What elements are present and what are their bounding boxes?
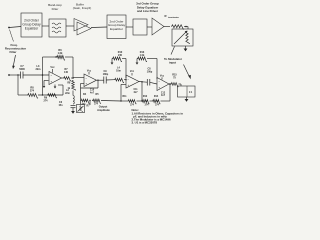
svg-text:140: 140 bbox=[64, 71, 69, 74]
load box bbox=[178, 86, 196, 97]
node A junction bbox=[42, 74, 44, 76]
wire rail1 right bbox=[65, 56, 73, 58]
svg-text:1.0k: 1.0k bbox=[140, 54, 145, 57]
node R4 R5 bbox=[89, 100, 90, 101]
wire C8 to A4 bbox=[150, 82, 157, 84]
resistor R terminator bbox=[171, 25, 184, 30]
block band-stop filter bbox=[49, 19, 66, 37]
svg-text:Equalizer: Equalizer bbox=[110, 27, 123, 31]
wire equalizer2 to equalizer3 bbox=[126, 26, 133, 28]
ground below C3 bbox=[72, 108, 74, 111]
resistor R10 vertical bbox=[72, 80, 76, 90]
svg-text:Vcc: Vcc bbox=[87, 69, 92, 72]
buffer amplifier (double triangle) bbox=[74, 19, 88, 32]
wire loop bottom bbox=[38, 94, 63, 96]
svg-text:10m: 10m bbox=[116, 69, 121, 72]
svg-text:1.0k: 1.0k bbox=[58, 52, 63, 55]
svg-text:and Line Driver: and Line Driver bbox=[137, 9, 159, 13]
rail3 Vss arrow bbox=[136, 59, 138, 63]
resistor R14 bbox=[152, 100, 160, 104]
resistor R15 bbox=[171, 83, 179, 87]
op-amp A4 bbox=[157, 78, 169, 91]
wire rail to A4 out bbox=[169, 84, 171, 101]
svg-text:Vcc: Vcc bbox=[160, 74, 165, 77]
resistor R6 bbox=[56, 56, 65, 61]
wire stub loop bbox=[58, 84, 63, 86]
ground below pot box bbox=[185, 46, 187, 49]
resistor R13 rail3 bbox=[137, 57, 147, 62]
svg-text:274: 274 bbox=[30, 90, 35, 93]
svg-text:terminator: terminator bbox=[168, 16, 179, 19]
ground at A1 plus input bbox=[44, 80, 49, 82]
svg-text:C11: C11 bbox=[133, 89, 138, 91]
resistor R5 bbox=[92, 99, 101, 103]
ground below load box bbox=[186, 97, 188, 99]
wire C8 node to rail bbox=[141, 82, 143, 101]
wire equalizer3 to line driver bbox=[147, 26, 152, 28]
resistor R11 rail2 bbox=[112, 57, 122, 62]
wire bandstop to buffer bbox=[66, 25, 74, 27]
feedback A3 to lower rail bbox=[121, 83, 126, 85]
annotation arrow to modulator bbox=[171, 47, 175, 55]
wire equalizer1 to bandstop bbox=[42, 25, 49, 27]
wire rail1 down bbox=[72, 57, 74, 78]
lower rail bbox=[121, 100, 128, 102]
svg-text:5600: 5600 bbox=[19, 68, 25, 71]
trimmer box bbox=[77, 105, 85, 113]
block 2nd Order Group Delay Equalizer U2 bbox=[107, 15, 126, 39]
capacitor C8 bbox=[146, 79, 148, 86]
wire buffer to equalizer 2 bbox=[91, 26, 107, 29]
wire A4 out bbox=[169, 83, 170, 85]
capacitor C7 bbox=[20, 72, 22, 79]
svg-text:R14: R14 bbox=[154, 95, 159, 98]
wire A1 out bbox=[62, 77, 64, 79]
wire A2 plus to divider bbox=[80, 88, 82, 101]
capacitor C9 bbox=[103, 77, 105, 84]
wire C9 to L4 bbox=[106, 79, 114, 81]
wire input to equalizer 1 bbox=[9, 27, 21, 28]
wire node B to A2 bbox=[73, 77, 84, 79]
arrow to filter schematic bbox=[13, 55, 15, 67]
resistor L4 series bbox=[114, 78, 124, 82]
svg-text:R11: R11 bbox=[122, 96, 127, 98]
wire R15 to load bbox=[179, 83, 182, 85]
resistor R4 bbox=[81, 99, 90, 103]
wire rail2 right down bbox=[122, 58, 126, 60]
node B bbox=[71, 77, 73, 79]
node input (block diagram) bbox=[8, 27, 10, 29]
wire loop vertical to A1 bbox=[62, 85, 64, 95]
svg-text:Filter: Filter bbox=[52, 7, 59, 11]
svg-text:Equalizer: Equalizer bbox=[25, 26, 39, 30]
wire R5 to rail bbox=[101, 100, 121, 103]
svg-text:Vcc: Vcc bbox=[50, 66, 55, 69]
potentiometer resistor bbox=[186, 31, 190, 44]
resistor R8 bbox=[27, 94, 38, 99]
wire R terminator to pot bbox=[184, 26, 188, 28]
leader curve from input node bbox=[10, 30, 14, 42]
svg-text:22m: 22m bbox=[35, 68, 41, 71]
wire A3 out bbox=[139, 81, 142, 83]
svg-text:R: R bbox=[165, 14, 167, 18]
wire A2 to C9 bbox=[98, 79, 104, 81]
wire parallel loop left bbox=[17, 75, 19, 95]
svg-text:100p: 100p bbox=[147, 71, 153, 74]
svg-text:(Gain, Freq'd): (Gain, Freq'd) bbox=[73, 6, 91, 10]
feedback A2 bbox=[97, 79, 99, 81]
resistor R7 bbox=[63, 77, 71, 81]
svg-text:240: 240 bbox=[118, 54, 123, 57]
wire down into pot box bbox=[187, 27, 189, 30]
wire L4 to A3 bbox=[124, 79, 126, 81]
wire R4 left down bbox=[80, 101, 82, 105]
svg-text:Filter: Filter bbox=[9, 50, 17, 54]
potentiometer box bbox=[172, 29, 193, 46]
svg-text:3. U1 is a MC33078: 3. U1 is a MC33078 bbox=[132, 121, 158, 125]
svg-text:15n: 15n bbox=[58, 104, 63, 107]
svg-text:274: 274 bbox=[44, 100, 49, 103]
resistor R11 bbox=[128, 100, 137, 104]
inductor L2 bbox=[73, 96, 74, 104]
svg-text:Amplitude: Amplitude bbox=[97, 108, 110, 112]
rail2 Vss arrow bbox=[111, 59, 113, 63]
svg-text:C10: C10 bbox=[90, 90, 95, 92]
potentiometer wiper arrow bbox=[174, 32, 186, 44]
wire C7 to node A bbox=[23, 74, 49, 76]
op-amp A2 bbox=[84, 74, 97, 87]
block 2nd Order Group Delay Equalizer U1 bbox=[21, 13, 42, 37]
capacitor C3 bbox=[71, 105, 76, 107]
wire feedback rail 1 bbox=[43, 56, 57, 58]
wire A3out to C8 bbox=[142, 81, 147, 83]
line driver amplifier bbox=[152, 18, 164, 35]
wire column down bbox=[72, 91, 74, 96]
svg-text:180p: 180p bbox=[103, 73, 109, 76]
block 3rd order equalizer bbox=[133, 19, 147, 35]
svg-text:Vcc: Vcc bbox=[130, 70, 135, 73]
op-amp A3 bbox=[126, 75, 139, 88]
resistor R12 bbox=[141, 100, 149, 104]
svg-text:C12: C12 bbox=[161, 92, 166, 94]
svg-text:R12: R12 bbox=[143, 96, 148, 98]
wire rail3 right down bbox=[147, 58, 157, 60]
wire loop right up bbox=[42, 57, 44, 95]
Vss below A1 bbox=[54, 85, 56, 87]
svg-text:input: input bbox=[169, 60, 176, 64]
op-amp A1 bbox=[49, 72, 62, 85]
svg-text:22m: 22m bbox=[65, 92, 70, 95]
node filter input bbox=[8, 74, 10, 76]
wire input to C7 bbox=[9, 74, 21, 76]
resistor R9 bbox=[47, 94, 57, 98]
wire driver to R terminator bbox=[164, 26, 170, 28]
wire loop bottom left bbox=[18, 94, 27, 96]
